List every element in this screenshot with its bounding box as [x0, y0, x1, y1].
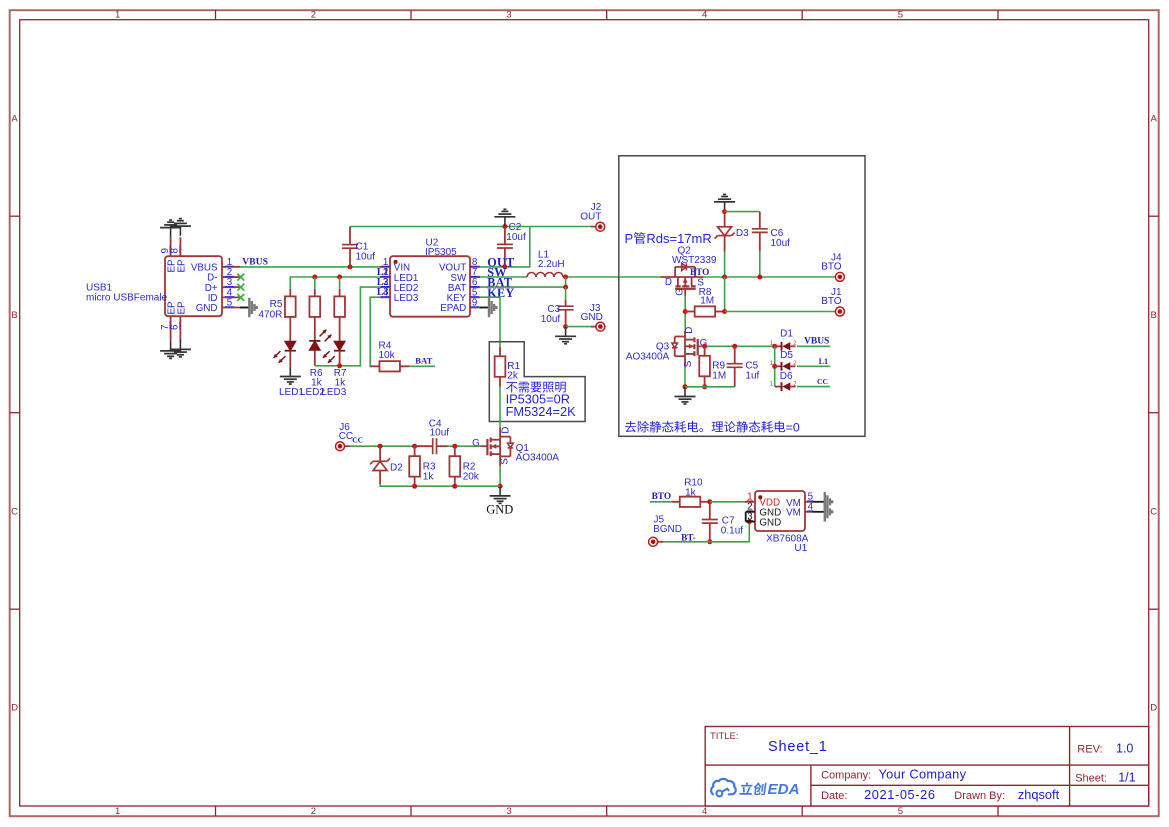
wire L1 to Q2 drain (net BTO trunk)	[563, 276, 660, 278]
svg-text:=0: =0	[786, 420, 800, 434]
ground (box top, flipped)	[714, 194, 735, 211]
svg-text:1M: 1M	[700, 295, 714, 306]
junction R3 top	[412, 444, 417, 449]
junction Q2 gate / R8	[683, 309, 688, 314]
IC U2 IP5305	[380, 238, 480, 317]
junction C6/BTO	[757, 275, 762, 280]
svg-text:IP5305: IP5305	[425, 247, 457, 258]
svg-text:10uf: 10uf	[541, 314, 561, 325]
diode D6	[770, 371, 797, 391]
svg-text:G: G	[472, 438, 480, 449]
wire R8 to J1	[725, 311, 836, 313]
port J1 BTO	[821, 287, 844, 316]
wire U2 pin4 to R4 (net L3)	[370, 297, 380, 366]
svg-text:D: D	[1150, 703, 1157, 714]
svg-text:VM: VM	[786, 508, 801, 519]
wire LED1 row (U2 pin2 to resistor tops)	[290, 277, 380, 289]
svg-text:P: P	[625, 231, 634, 246]
wire CC row	[350, 445, 424, 447]
svg-text:OUT: OUT	[580, 212, 601, 223]
svg-text:CC: CC	[352, 436, 363, 445]
svg-text:D3: D3	[736, 228, 749, 239]
ground (above C2, flipped)	[494, 209, 515, 226]
no-connect X on D-	[237, 274, 244, 281]
net label BAT	[487, 276, 512, 290]
svg-text:D: D	[11, 703, 18, 714]
LED3	[321, 317, 346, 398]
net label L2 (U2 pin3)	[377, 277, 389, 288]
net label CC (D6)	[817, 377, 828, 386]
svg-text:20k: 20k	[463, 472, 480, 483]
svg-text:Sheet_1: Sheet_1	[768, 739, 828, 755]
svg-text:3: 3	[506, 10, 511, 21]
wire D3 to BTO row	[724, 252, 726, 278]
svg-text:zhqsoft: zhqsoft	[1018, 787, 1060, 802]
svg-text:LED3: LED3	[394, 293, 419, 304]
svg-text:CC: CC	[339, 431, 353, 442]
svg-text:2: 2	[311, 806, 316, 817]
svg-text:D5: D5	[780, 350, 793, 361]
zener diode D2	[370, 446, 403, 484]
junction Q1 source / bottom row	[498, 484, 503, 489]
svg-text:EP: EP	[176, 259, 187, 273]
svg-text:5: 5	[898, 10, 903, 21]
wire Q1 source to GND row	[499, 466, 501, 486]
svg-text:D2: D2	[390, 463, 403, 474]
resistor R1 2k	[495, 347, 521, 387]
svg-text:Your Company: Your Company	[879, 766, 967, 781]
resistor R10 1k	[671, 477, 710, 507]
svg-text:S: S	[683, 360, 694, 367]
net label KEY	[487, 286, 514, 300]
svg-text:EPAD: EPAD	[440, 303, 466, 314]
wire BAT row: U2 pin6 to C3	[480, 286, 566, 288]
wire D6 to CC	[797, 386, 830, 388]
junction D1 column top	[772, 344, 777, 349]
connector USB1 micro USBFemale	[86, 237, 240, 341]
junction at C1/VBUS	[348, 264, 353, 269]
svg-text:Sheet:: Sheet:	[1075, 772, 1107, 784]
wire J2 branch down to OUT row	[480, 227, 530, 267]
svg-text:G: G	[675, 288, 686, 296]
junction R8 right	[722, 309, 727, 314]
junction D5 row	[772, 364, 777, 369]
svg-text:8: 8	[170, 248, 181, 254]
svg-text:S: S	[500, 458, 511, 465]
net label L1 (D5)	[819, 357, 829, 366]
net label L3 (U2 pin4)	[377, 287, 389, 298]
title block	[705, 727, 1148, 807]
port J6 CC	[336, 422, 354, 451]
svg-text:1/1: 1/1	[1118, 770, 1135, 784]
svg-text:6: 6	[170, 324, 181, 330]
svg-text:Rds=17mR: Rds=17mR	[646, 231, 711, 246]
net label BTO (Q2)	[690, 267, 709, 277]
ground (USB bottom shield)	[160, 340, 191, 359]
net label VBUS	[242, 258, 268, 268]
resistor R8 1M	[685, 287, 724, 316]
net label L1 (U2 pin2)	[377, 267, 389, 278]
junction R7 top	[337, 275, 342, 280]
wire J5 row to U1 GND pins	[663, 522, 749, 542]
junction D3 top	[722, 209, 727, 214]
resistor R7 1k	[334, 277, 347, 388]
svg-text:GND: GND	[759, 517, 781, 528]
svg-text:VBUS: VBUS	[804, 337, 829, 347]
svg-text:1.0: 1.0	[1116, 742, 1133, 756]
ground (below Q1)	[490, 486, 511, 503]
wire R10 to U1 VDD	[710, 501, 745, 503]
capacitor C4 10uf	[415, 418, 450, 454]
capacitor C6 10uf	[752, 212, 790, 252]
capacitor C1 10uf	[342, 227, 375, 267]
ground port on U1 VM pin4	[825, 502, 832, 522]
resistor R2 20k	[449, 446, 479, 486]
svg-text:BTO: BTO	[821, 296, 842, 307]
junction R3 bottom	[412, 484, 417, 489]
junction L1 right	[563, 275, 568, 280]
text P管Rds=17mR	[625, 231, 712, 246]
svg-text:BTO: BTO	[821, 261, 842, 272]
transistor Q2 WST2339 (PMOS)	[660, 245, 717, 296]
port J4 BTO	[821, 253, 844, 282]
wire D1 to VBUS	[797, 345, 830, 347]
svg-text:A: A	[1151, 114, 1158, 125]
svg-text:4: 4	[702, 806, 707, 817]
junction D3/BTO	[722, 275, 727, 280]
svg-text:TITLE:: TITLE:	[710, 731, 739, 742]
net label VBUS (D1)	[804, 337, 829, 347]
svg-text:B: B	[11, 310, 17, 321]
IC U1 XB7608A	[745, 491, 825, 554]
net label CC (J6)	[352, 436, 363, 445]
svg-text:micro USBFemale: micro USBFemale	[86, 293, 168, 304]
ground (USB top shield)	[160, 219, 191, 238]
junction at C2 bottom / OUT row	[502, 264, 507, 269]
wire D1/D5/D6 cathode column	[774, 346, 776, 386]
svg-text:0.1uf: 0.1uf	[721, 525, 743, 536]
resistor R4 10k	[370, 341, 410, 372]
svg-text:D1: D1	[780, 329, 793, 340]
wire top to C6	[725, 211, 760, 213]
svg-text:10uf: 10uf	[430, 428, 450, 439]
junction C5 top	[732, 344, 737, 349]
wire BTO to R10	[650, 501, 671, 503]
net label SW	[487, 266, 507, 280]
junction BAT/C3	[563, 285, 568, 290]
zener diode D3	[715, 212, 750, 252]
svg-text:GND: GND	[581, 312, 603, 323]
svg-text:10uf: 10uf	[506, 232, 526, 243]
svg-text:D: D	[665, 277, 672, 288]
svg-text:GND: GND	[196, 303, 218, 314]
diode D5	[770, 350, 797, 371]
svg-text:A: A	[11, 114, 18, 125]
junction R2 bottom	[452, 484, 457, 489]
wire KEY: U2 pin5 down to R1	[480, 297, 500, 347]
wire bottom GND row (D2/R3/R2/Q1)	[380, 484, 500, 486]
ground port on USB GND pin	[240, 298, 257, 318]
svg-text:Date:: Date:	[821, 790, 847, 802]
wire C4 to R2/Q1 gate	[448, 445, 488, 447]
no-connect X on ID	[237, 294, 244, 301]
svg-text:1: 1	[115, 806, 120, 817]
junction R2 top	[452, 444, 457, 449]
svg-text:L1: L1	[819, 357, 829, 366]
svg-text:470R: 470R	[258, 309, 282, 320]
wire Q3 source to GND row	[684, 367, 686, 387]
svg-text:VBUS: VBUS	[242, 258, 268, 268]
svg-text:2021-05-26: 2021-05-26	[864, 787, 935, 802]
ground (below J3 junction)	[555, 327, 576, 344]
svg-text:BGND: BGND	[653, 524, 682, 535]
junction Q3 source	[683, 384, 688, 389]
capacitor C3 10uf	[541, 287, 574, 327]
svg-text:2.2uH: 2.2uH	[538, 259, 565, 270]
capacitor C7 0.1uf	[702, 502, 743, 542]
svg-text:10k: 10k	[379, 350, 396, 361]
wire D5 to L1	[797, 365, 830, 367]
svg-text:Drawn By:: Drawn By:	[954, 790, 1005, 802]
svg-text:REV:: REV:	[1077, 744, 1102, 756]
LED1	[274, 317, 305, 398]
wire SW-BAT vertical	[565, 277, 567, 287]
svg-text:2k: 2k	[507, 371, 519, 382]
ground port on U1 VM pin5	[825, 492, 832, 512]
svg-text:Company:: Company:	[821, 769, 871, 781]
EasyEDA logo	[711, 779, 799, 798]
junction R9 bottom	[702, 384, 707, 389]
svg-text:BTO: BTO	[652, 492, 671, 502]
wire SW row: U2 pin7 to L1	[480, 276, 527, 278]
svg-text:LED3: LED3	[321, 387, 346, 398]
svg-text:WST2339: WST2339	[672, 255, 717, 266]
svg-text:10uf: 10uf	[771, 238, 791, 249]
wire R1 to Q1 drain	[499, 387, 501, 428]
svg-text:10uf: 10uf	[356, 252, 376, 263]
wire Q2 source to J4	[704, 276, 836, 278]
junction U1 pin3	[747, 519, 752, 524]
junction R10/C7	[707, 499, 712, 504]
junction LED3 bottom	[337, 363, 342, 368]
svg-text:B: B	[1151, 310, 1157, 321]
junction C7 bottom	[707, 539, 712, 544]
wire bottom row Q3/R9/C5	[685, 386, 735, 388]
wire C6 to BTO row	[759, 251, 761, 277]
port J3 GND	[581, 303, 605, 331]
inductor L1 2.2uH	[527, 250, 565, 277]
svg-text:BTO: BTO	[690, 267, 709, 277]
wire VBUS: USB pin1 to U2 VIN	[240, 266, 380, 268]
svg-text:D: D	[501, 427, 512, 434]
svg-text:C: C	[1150, 506, 1157, 517]
svg-text:5: 5	[898, 806, 903, 817]
net label OUT	[487, 255, 514, 269]
svg-text:4: 4	[702, 10, 707, 21]
svg-text:2: 2	[311, 10, 316, 21]
net label BTO (R10)	[652, 492, 671, 502]
LED2	[300, 317, 332, 398]
ground (below LED1)	[280, 367, 301, 384]
wire to J3	[566, 326, 591, 328]
svg-text:FM5324=2K: FM5324=2K	[506, 404, 577, 419]
transistor Q1 AO3400A (NMOS)	[472, 427, 559, 467]
wire LED2/LED3 bottoms to U2 pin3 (net L2)	[315, 287, 380, 366]
ground text GND	[486, 503, 513, 517]
wire Q3 gate row	[698, 345, 775, 347]
junction C3 bottom / J3	[563, 324, 568, 329]
capacitor C2 10uf	[497, 222, 526, 267]
resistor R6 1k	[309, 277, 323, 388]
junction R9 top	[702, 344, 707, 349]
diode D1	[770, 329, 797, 351]
svg-text:1uf: 1uf	[745, 370, 759, 381]
ground port on U2 EPAD	[480, 298, 496, 318]
capacitor C5 1uf	[727, 346, 760, 387]
note text 不需要照明 / IP5305=0R / FM5324=2K	[506, 382, 577, 419]
note box (R1 note)	[489, 342, 585, 422]
wire BTO to R8 right / J1	[724, 277, 726, 312]
net label BAT (R4)	[415, 356, 432, 366]
svg-text:D: D	[684, 327, 695, 334]
text 去除静态耗电。理论静态耗电=0	[625, 420, 800, 434]
resistor R3 1k	[409, 446, 436, 486]
svg-text:EDA: EDA	[768, 781, 800, 798]
wire top rail C1 to J2	[350, 226, 591, 228]
no-connect X on D+	[237, 284, 244, 291]
resistor R5 470R	[258, 289, 295, 321]
svg-text:CC: CC	[817, 377, 828, 386]
ground (below Q3)	[675, 387, 696, 404]
svg-text:AO3400A: AO3400A	[516, 453, 560, 464]
svg-text:1k: 1k	[423, 472, 435, 483]
junction R6 top	[312, 275, 317, 280]
svg-text:1: 1	[115, 10, 120, 21]
port J5 BGND	[649, 514, 682, 546]
wire R4 to BAT	[410, 365, 435, 367]
svg-text:3: 3	[506, 806, 511, 817]
wire Q2 gate down to R8	[684, 296, 686, 331]
resistor R9 1M	[699, 346, 726, 387]
junction D2 top	[378, 444, 383, 449]
svg-text:1M: 1M	[712, 370, 726, 381]
svg-text:1k: 1k	[685, 487, 697, 498]
svg-text:C: C	[11, 506, 18, 517]
svg-text:U1: U1	[794, 543, 807, 554]
svg-text:BAT: BAT	[415, 356, 432, 366]
annotation box (P-FET section)	[619, 156, 865, 437]
svg-text:D6: D6	[780, 371, 793, 382]
port J2 OUT	[580, 202, 605, 231]
junction at C2 top	[502, 224, 507, 229]
svg-text:GND: GND	[486, 503, 513, 517]
transistor Q3 AO3400A (NMOS, gate right)	[626, 327, 707, 367]
net label BT-	[681, 533, 696, 543]
svg-text:AO3400A: AO3400A	[626, 351, 670, 362]
svg-text:EP: EP	[176, 301, 187, 315]
